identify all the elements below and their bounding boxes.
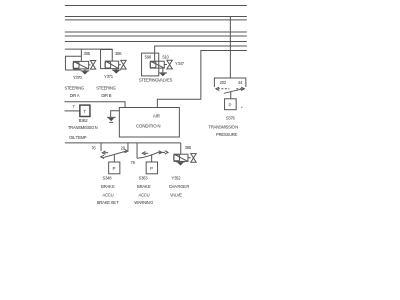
svg-text:PRESSURE: PRESSURE [216, 132, 237, 137]
node Y352 drop [180, 143, 182, 154]
ground Y370 [81, 69, 90, 75]
valve Y352 [191, 154, 196, 163]
svg-text:S376: S376 [226, 116, 236, 121]
svg-text:STEERING: STEERING [139, 78, 158, 83]
svg-text:385: 385 [185, 145, 192, 150]
svg-text:BRAK E: BRAK E [101, 184, 115, 189]
wire W1 [65, 48, 113, 50]
svg-text:STEERING: STEERING [64, 86, 83, 91]
svg-text:596: 596 [145, 54, 152, 59]
wire into air condition box left [65, 102, 126, 108]
wire W3 to air condition box [157, 51, 247, 108]
svg-text:BRAKE SE T: BRAKE SE T [97, 200, 120, 205]
svg-text:B362: B362 [79, 118, 89, 123]
bottom feed wire [65, 142, 181, 144]
svg-text:TRANSMISSIO N: TRANSMISSIO N [209, 125, 239, 130]
solenoid Y352 [174, 154, 188, 161]
bus wire 5 [65, 35, 247, 37]
svg-text:ACCU: ACCU [103, 193, 114, 198]
svg-text:P: P [113, 166, 116, 171]
svg-text:CONDITIO N: CONDITIO N [136, 124, 161, 129]
wire into temp sensor [65, 110, 80, 112]
svg-text:VALVE: VALVE [170, 193, 182, 198]
svg-text:385: 385 [84, 51, 91, 56]
bus wire 4 [65, 31, 247, 33]
svg-text:OIL TEMP: OIL TEMP [69, 135, 87, 140]
svg-text:Y352: Y352 [172, 176, 182, 181]
connector box Y371 [101, 50, 113, 69]
svg-text:DIR A: DIR A [70, 93, 80, 98]
bus wire 2 [65, 16, 247, 18]
ground wire from air condition box [111, 111, 120, 118]
valve Y370 [90, 61, 95, 70]
wire solenoid to valve Y347 [164, 64, 167, 66]
svg-text:Y371: Y371 [104, 74, 114, 79]
svg-text:TRANSMISSIO N: TRANSMISSIO N [68, 125, 98, 130]
bus wire 3 [65, 19, 247, 21]
wire drop to S376 [229, 17, 231, 79]
air condition box [119, 108, 179, 138]
svg-text:DIR B: DIR B [101, 93, 111, 98]
wire solenoid to valve Y371 [119, 64, 121, 66]
ground Y371 [112, 69, 121, 74]
ground (air condition) [107, 117, 116, 122]
svg-text:Y370: Y370 [73, 75, 83, 80]
connector box Y370 [65, 56, 81, 70]
svg-text:WARNIN G: WARNIN G [134, 200, 153, 205]
svg-text:AIR: AIR [153, 114, 160, 119]
ground Y352 [176, 162, 185, 166]
svg-text:BRAK E: BRAK E [137, 184, 151, 189]
svg-text:386: 386 [115, 51, 122, 56]
svg-text:VALVES: VALVES [158, 78, 173, 83]
svg-text:Y347: Y347 [175, 61, 185, 66]
pressure sensor box S363 [146, 162, 157, 174]
solenoid Y370 [73, 61, 89, 69]
ground Y347 [159, 68, 167, 76]
bus wire 6 [65, 41, 247, 43]
switch S363 [137, 143, 168, 162]
svg-text:STEERING: STEERING [96, 86, 115, 91]
svg-text:202: 202 [220, 80, 227, 85]
bus wire 1 [65, 5, 247, 7]
node Y370 drop [80, 49, 82, 61]
svg-text:510: 510 [162, 54, 169, 59]
svg-text:ACCU: ACCU [139, 193, 150, 198]
wire solenoid to valve Y352 [188, 157, 191, 159]
svg-text:P: P [150, 166, 153, 171]
pressure sensor box S348 [109, 162, 120, 174]
wire solenoid to valve Y370 [89, 64, 91, 66]
switch S376 [214, 78, 246, 99]
wire W2 [155, 46, 247, 61]
node Y371 drop [111, 49, 113, 61]
svg-text:CHA RGE R: CHA RGE R [169, 184, 190, 189]
pressure sensor box S376 [225, 99, 237, 110]
svg-text:T: T [83, 109, 86, 114]
svg-text:P: P [229, 102, 232, 107]
connector box Y347 [142, 53, 159, 76]
solenoid Y371 [105, 61, 119, 69]
valve Y347 [167, 60, 173, 69]
valve Y371 [121, 60, 126, 69]
svg-text:S363: S363 [139, 176, 149, 181]
temp sensor box B362 [80, 105, 90, 116]
switch S348 [101, 143, 128, 162]
svg-text:S348: S348 [103, 176, 113, 181]
solenoid Y347 [150, 61, 164, 68]
